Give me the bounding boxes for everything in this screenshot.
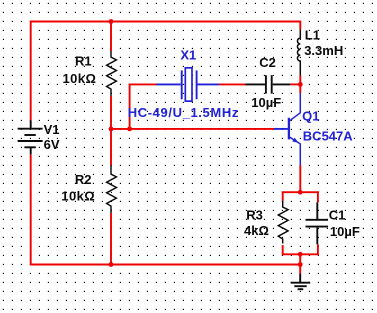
transistor Q1 [274,93,300,165]
svg-text:R2: R2 [75,172,92,187]
svg-text:HC-49/U_1.5MHz: HC-49/U_1.5MHz [128,105,239,120]
wire R1 top lead [110,22,112,52]
svg-text:R3: R3 [246,207,263,222]
wire bottom rail [31,264,301,266]
junction bottom rail R2 [109,262,114,267]
wire C1 top lead [317,191,319,202]
wire L1 bottom to collector [299,75,301,93]
svg-text:10µF: 10µF [251,95,281,110]
resistor R3 [278,201,288,244]
wire R3 bottom lead [282,245,284,255]
wire R2 bottom [110,213,112,265]
transistor Q1 emitter arrow [292,138,298,143]
capacitor C1 [306,202,329,244]
wire ground stem [299,254,301,273]
svg-text:10µF: 10µF [330,224,360,239]
wire R3C1 block top [283,191,318,193]
svg-text:10kΩ: 10kΩ [63,71,97,86]
wire crystal to C2 [219,83,246,85]
inductor L1 [297,29,300,75]
svg-text:BC547A: BC547A [303,128,353,143]
wire emitter to block [299,165,301,192]
junction top R1 [109,19,114,24]
junction block bottom [298,252,303,257]
capacitor C2 [246,75,291,93]
svg-text:10kΩ: 10kΩ [61,188,95,203]
junction crystal tap [127,126,132,131]
wire C1 bottom lead [317,244,319,255]
wire R1-R2 middle [110,96,112,165]
svg-text:V1: V1 [44,122,60,137]
crystal X1 [156,68,219,101]
svg-text:L1: L1 [305,28,320,43]
junction bottom rail right [298,262,303,267]
wire left rail lower [30,154,32,265]
wire left rail upper [30,21,32,121]
wire crystal branch vertical [129,84,131,129]
junction collector node [298,82,303,87]
ground [291,274,311,290]
wire R3C1 block bottom [283,253,318,255]
battery V1 [18,120,43,154]
wire R3 top lead [282,191,284,201]
junction base R1R2 [109,126,114,131]
svg-text:C2: C2 [259,55,276,70]
wire C2 to collector node [290,83,300,85]
resistor R1 [107,51,117,96]
svg-text:4kΩ: 4kΩ [244,223,269,238]
svg-text:6V: 6V [44,137,60,152]
svg-text:C1: C1 [329,208,346,223]
svg-text:X1: X1 [180,48,196,63]
resistor R2 [107,165,117,213]
wire crystal left horizontal [130,83,157,85]
svg-text:3.3mH: 3.3mH [304,43,343,58]
wire base [111,128,274,130]
svg-text:R1: R1 [75,54,92,69]
wire top rail [31,21,301,23]
svg-text:Q1: Q1 [302,109,319,124]
wire L1 top lead [299,21,301,30]
junction emitter node [298,190,303,195]
